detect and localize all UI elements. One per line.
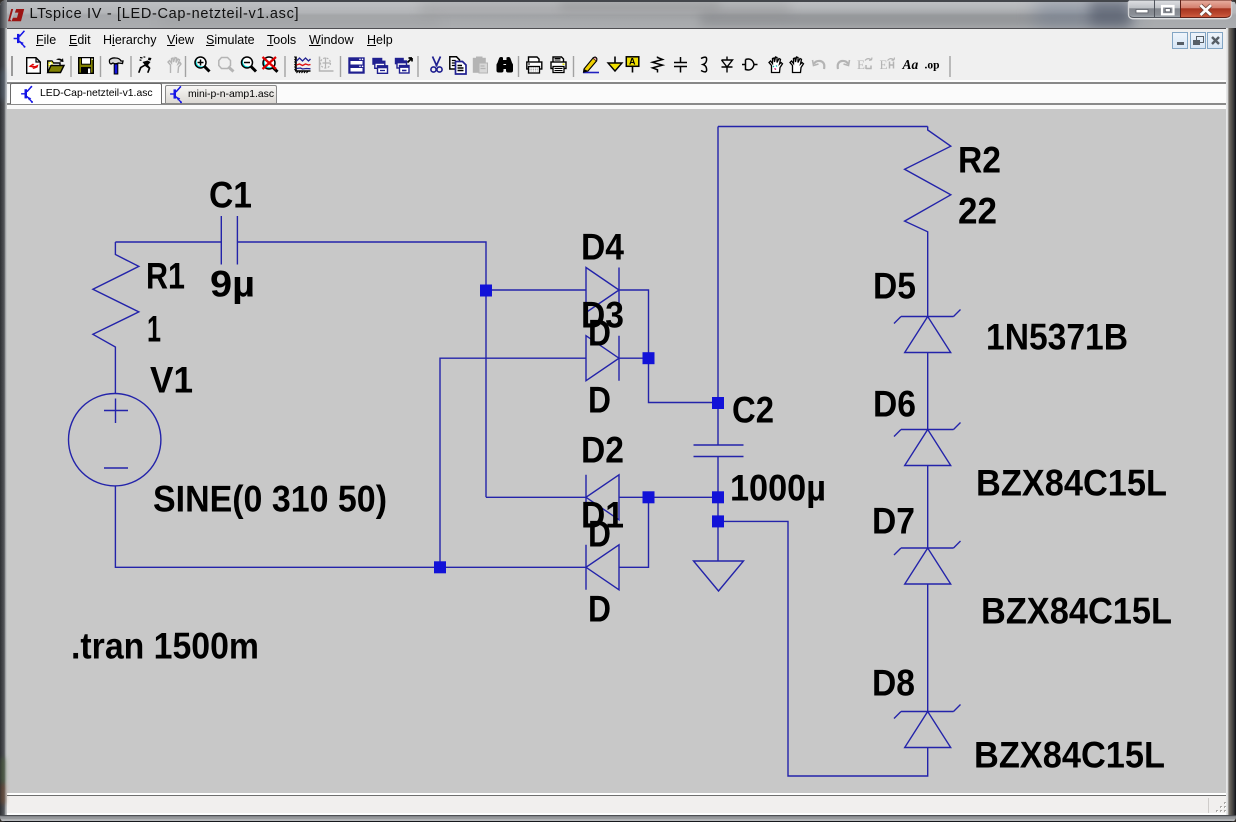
diode D4 <box>586 268 619 313</box>
capacitor C2 <box>694 445 744 457</box>
junction node C2 bottom <box>712 491 724 503</box>
wire D2 anode join <box>619 496 718 498</box>
icon redo (disabled) <box>838 60 850 69</box>
icon print setup <box>527 57 542 73</box>
svg-text:D: D <box>588 589 611 630</box>
wire V1-return vertical to D3 anode <box>440 358 586 567</box>
svg-text:D2: D2 <box>581 430 624 471</box>
svg-text:1000µ: 1000µ <box>730 468 826 509</box>
left border desktop color bleed <box>1 758 5 784</box>
menu bar <box>7 28 1229 51</box>
icon new schematic <box>27 58 41 74</box>
wire output branch to zener bottom <box>718 521 928 776</box>
zener diode D7 <box>894 541 961 712</box>
close button <box>1181 0 1232 18</box>
icon text <box>902 57 919 72</box>
icon diode <box>722 57 733 73</box>
svg-text:D: D <box>588 514 611 555</box>
icon find (binoculars) <box>497 57 514 73</box>
icon spice directive <box>925 60 940 72</box>
tab icons + menu icon svg <box>0 0 1236 110</box>
wire top rail <box>718 126 928 128</box>
svg-text:D6: D6 <box>873 384 916 425</box>
wire D3 cathode join <box>619 357 649 359</box>
voltage source V1 <box>69 394 161 486</box>
icon inductor <box>701 57 707 72</box>
zener diode D8 <box>894 705 961 748</box>
svg-text:SINE(0 310 50): SINE(0 310 50) <box>153 479 387 520</box>
resistor R2 <box>905 127 951 317</box>
icon cut <box>431 57 442 73</box>
svg-text:R2: R2 <box>958 140 1001 181</box>
status bar <box>7 793 1229 795</box>
resistor R1 <box>93 242 139 394</box>
icon waveform <box>295 57 311 74</box>
icon capacitor <box>674 57 687 73</box>
MDI child buttons <box>1172 32 1224 49</box>
LT logo <box>8 9 25 22</box>
diode D2 <box>586 475 619 520</box>
icon zoom out <box>242 57 257 72</box>
svg-text:9µ: 9µ <box>210 264 255 305</box>
svg-text:D: D <box>588 313 611 354</box>
icon zoom extents (disabled) <box>219 58 234 72</box>
junction node D4 anode <box>480 285 492 297</box>
svg-text:D7: D7 <box>872 501 915 542</box>
junction node output branch <box>712 515 724 527</box>
window top edge <box>0 0 1236 2</box>
caption buttons <box>1126 0 1234 22</box>
wire to D4 anode <box>486 289 586 291</box>
wire top-left from R1 to C1 <box>115 241 221 243</box>
icon tile windows <box>349 58 364 73</box>
junction node D3/D4 cathodes <box>643 352 655 364</box>
toolbar separators <box>71 56 950 77</box>
icon cascade new (arrow) <box>395 58 412 73</box>
title bar glass <box>0 0 1236 28</box>
wire C2 bottom to ground <box>717 457 719 562</box>
wire D4 cathode to C2 top <box>619 290 718 403</box>
active tab icon <box>21 86 33 103</box>
status bar separator <box>1208 798 1209 813</box>
max glyph <box>1162 6 1174 14</box>
icon resistor <box>653 57 663 73</box>
icon zoom in <box>195 57 210 72</box>
tab strip <box>7 80 1229 83</box>
toolbar <box>7 51 1229 80</box>
icon copy <box>450 57 466 74</box>
icon move (hand) <box>769 57 783 73</box>
icon paste (disabled) <box>473 57 488 74</box>
svg-text:D5: D5 <box>873 266 916 307</box>
svg-text:D: D <box>588 380 611 421</box>
icon ground <box>608 57 622 72</box>
svg-text:BZX84C15L: BZX84C15L <box>976 463 1167 504</box>
junction node C2 top <box>712 397 724 409</box>
title text <box>30 6 300 22</box>
icon open <box>48 58 64 73</box>
junction node bottom rail <box>434 561 446 573</box>
resize grip <box>1214 800 1228 814</box>
junction node D1/D2 anodes <box>643 491 655 503</box>
wire D1 anode up to D2 <box>619 497 649 567</box>
window borders <box>0 28 7 822</box>
icon cascade windows <box>372 58 387 74</box>
svg-text:R1: R1 <box>146 256 185 297</box>
icon save <box>79 58 94 74</box>
icon halt (disabled hand) <box>168 58 181 74</box>
ground <box>694 561 744 591</box>
svg-text:22: 22 <box>958 191 997 232</box>
minimize button <box>1129 0 1155 18</box>
svg-text:BZX84C15L: BZX84C15L <box>974 735 1165 776</box>
wire bottom from V1 to D1 cathode <box>115 486 586 567</box>
min glyph <box>1136 10 1148 13</box>
toolbar grip <box>11 56 13 76</box>
svg-text:1N5371B: 1N5371B <box>986 317 1128 358</box>
svg-text:C1: C1 <box>209 175 252 216</box>
inactive tab <box>165 85 277 103</box>
icon undo (disabled) <box>813 60 825 69</box>
icon mirror (disabled) <box>857 57 872 72</box>
svg-text:D8: D8 <box>872 663 915 704</box>
wire C1 to bridge vertical <box>237 242 486 497</box>
capacitor C1 <box>221 216 237 265</box>
inactive tab icon <box>170 86 182 103</box>
icon label <box>626 57 639 73</box>
svg-text:C2: C2 <box>732 390 774 431</box>
svg-text:D4: D4 <box>581 227 624 268</box>
maximize button <box>1155 0 1181 18</box>
wire C2 top vertical from top rail <box>717 127 719 446</box>
wire to D2 cathode <box>486 496 586 498</box>
zener diode D5 <box>894 310 961 430</box>
title bar blur smudges <box>420 3 790 14</box>
icon run <box>138 57 152 73</box>
close glyph <box>1201 5 1212 15</box>
icon rotate (disabled) <box>880 57 895 72</box>
diode D3 <box>586 336 619 381</box>
icon component <box>742 59 758 70</box>
icon plot settings (disabled) <box>320 57 334 72</box>
zener diode D6 <box>894 423 961 549</box>
app icon in menu bar <box>14 31 26 48</box>
active tab <box>10 83 162 104</box>
icon print <box>551 57 566 73</box>
svg-text:BZX84C15L: BZX84C15L <box>981 591 1172 632</box>
diode D1 <box>586 545 619 590</box>
svg-text:.tran 1500m: .tran 1500m <box>71 626 259 667</box>
icon wire (pencil) <box>583 57 599 72</box>
icon drag (hand) <box>790 57 804 73</box>
svg-text:1: 1 <box>147 309 161 350</box>
icon undock plot (magnifier red X) <box>263 57 278 72</box>
icon control panel hammer <box>109 58 123 74</box>
svg-text:V1: V1 <box>150 360 193 401</box>
